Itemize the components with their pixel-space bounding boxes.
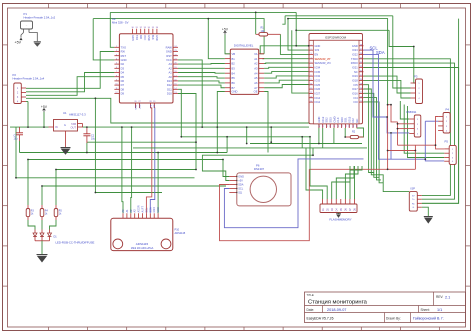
wire (esp b5 down) [333, 128, 335, 144]
svg-text:31: 31 [360, 75, 362, 77]
wire (bus to ADS1115 A0) [122, 127, 123, 213]
wire (v16) [15, 127, 17, 178]
wire (x288 to ESP.3V3) [288, 19, 309, 50]
svg-text:SDA: SDA [149, 207, 152, 212]
svg-text:17: 17 [325, 125, 327, 127]
svg-text:ADS1115: ADS1115 [175, 231, 186, 235]
wire U3.GND drop [217, 92, 225, 153]
wire CN1.1 stub [400, 101, 409, 119]
svg-text:ISP: ISP [411, 187, 416, 191]
svg-text:GND: GND [134, 105, 136, 110]
ground (D1) [41, 241, 43, 255]
wire (R4 to LED) [41, 220, 43, 230]
svg-text:GND: GND [121, 58, 127, 62]
svg-text:+5V: +5V [238, 179, 243, 183]
svg-text:D10: D10 [167, 92, 172, 96]
wire U2.D11 drop [178, 89, 181, 137]
LED D1 LED-RGB-CC-THRU/DIFFUSE [33, 233, 37, 237]
wire (v271 v) [270, 127, 272, 142]
wire ESP.TXD0-ISP.1 [364, 59, 451, 196]
svg-text:IO12: IO12 [315, 100, 321, 104]
svg-text:7: 7 [310, 70, 311, 72]
ground (U1) [65, 131, 67, 148]
wire gnd rail [20, 152, 228, 154]
svg-text:20: 20 [336, 125, 338, 127]
wire top rail y12 [110, 11, 296, 13]
wire rail y177 [16, 177, 195, 179]
wire (v56 to R5) [55, 170, 57, 206]
ground (FLASHMEMORY) [338, 213, 340, 214]
wire P2.4 to bottom rail [26, 98, 319, 128]
svg-text:TAB: TAB [71, 122, 76, 126]
svg-text:+5V: +5V [41, 105, 48, 109]
svg-text:Header-Female 2.54_1x4: Header-Female 2.54_1x4 [13, 77, 45, 81]
svg-text:D12: D12 [167, 83, 172, 87]
wire ESP.IO0 drop [364, 102, 384, 183]
svg-text:2: 2 [310, 49, 311, 51]
svg-text:IO34: IO34 [315, 66, 321, 70]
svg-text:18: 18 [329, 125, 331, 127]
svg-text:DIGITALLEVEL: DIGITALLEVEL [234, 44, 254, 48]
svg-text:30: 30 [360, 79, 362, 81]
svg-text:A0: A0 [169, 75, 173, 79]
wire ESP.IO5 drop [364, 85, 375, 173]
svg-text:A7: A7 [254, 86, 258, 90]
wire (P2.4 drop to bus) [94, 98, 96, 192]
svg-text:GND: GND [166, 50, 172, 54]
wire (v392 to P3.2) [393, 16, 411, 88]
svg-text:10: 10 [310, 83, 312, 85]
svg-text:SCL: SCL [145, 207, 148, 212]
svg-text:19: 19 [332, 125, 334, 127]
wire (v296 to ESP.GND) [296, 30, 309, 46]
svg-text:12: 12 [310, 92, 312, 94]
wire (v28 to R3) [27, 160, 29, 206]
svg-text:IO26: IO26 [315, 87, 321, 91]
svg-text:SDA: SDA [376, 50, 385, 55]
svg-text:RAW: RAW [166, 45, 173, 49]
svg-text:22: 22 [344, 125, 346, 127]
svg-text:NC: NC [354, 70, 358, 74]
svg-text:27: 27 [360, 92, 362, 94]
svg-text:CN5W11: CN5W11 [406, 110, 417, 114]
wire ESP.IO4 drop [364, 98, 382, 180]
svg-text:B4: B4 [232, 71, 236, 75]
wire (C2 to gnd rail) [86, 143, 88, 153]
wire (rail down x296) [295, 12, 297, 30]
wire red h169 [309, 168, 415, 170]
wire (LED common) [35, 240, 50, 242]
svg-text:D2: D2 [121, 62, 125, 66]
wire U2.GND riser [93, 19, 114, 60]
svg-text:NC: NC [355, 119, 359, 123]
svg-text:8: 8 [310, 75, 311, 77]
wire P4.1 (red) [436, 117, 439, 146]
svg-text:REV:: REV: [436, 295, 443, 299]
wire (riser to P5.3) [408, 106, 445, 158]
svg-text:P4: P4 [446, 108, 450, 112]
svg-text:AMS1117-3.3: AMS1117-3.3 [69, 113, 86, 117]
svg-text:D9: D9 [121, 92, 125, 96]
wire (rail-R1 left) [255, 12, 257, 34]
svg-text:10u: 10u [14, 138, 19, 141]
ground (ISP) [422, 207, 429, 216]
resistor R3 1k [26, 209, 30, 217]
svg-text:16: 16 [321, 125, 323, 127]
svg-text:34: 34 [360, 62, 362, 64]
wire (x458 to ISP.Rx) [422, 19, 459, 204]
wire U2.A2-U3.B3 [178, 67, 225, 69]
connector FLASHMEMORY (1x8) [320, 204, 357, 213]
wire U2.VCC drop [178, 60, 202, 127]
svg-text:CMD: CMD [332, 116, 336, 122]
svg-text:2.1: 2.1 [445, 296, 450, 300]
svg-text:RXI: RXI [139, 35, 142, 39]
wire red bus h145 [398, 144, 436, 146]
wire ESP.IO17 drop [364, 89, 410, 192]
wire P2.3-U2.D7 [26, 77, 114, 96]
svg-text:A2: A2 [169, 66, 173, 70]
svg-text:+5V: +5V [222, 27, 229, 31]
wire U3.VA-ESP.GND [260, 53, 264, 55]
svg-text:10u: 10u [91, 138, 96, 141]
svg-text:2018-09-07: 2018-09-07 [327, 308, 346, 312]
svg-text:23: 23 [348, 125, 350, 127]
wire (bus to ADS1115 A2) [130, 127, 133, 213]
svg-text:6: 6 [310, 66, 311, 68]
wire (v227 gnd) [226, 137, 228, 153]
svg-text:Header-Female 2.54_1x2: Header-Female 2.54_1x2 [24, 15, 56, 19]
wire (flash p1) [306, 148, 323, 199]
svg-text:IN: IN [55, 125, 58, 129]
svg-text:5: 5 [310, 62, 311, 64]
wire SDA (blue) [364, 54, 426, 159]
svg-text:EN: EN [315, 53, 319, 57]
wire CN1.2 (red) [398, 123, 410, 125]
svg-text:D8: D8 [121, 87, 125, 91]
svg-text:D7: D7 [121, 83, 125, 87]
svg-text:CLK: CLK [336, 117, 340, 122]
svg-text:D6: D6 [121, 79, 125, 83]
svg-text:38: 38 [360, 45, 362, 47]
svg-text:SD2: SD2 [325, 117, 329, 123]
wire rail y159 [28, 159, 223, 161]
svg-text:36: 36 [360, 53, 362, 55]
svg-text:IO19: IO19 [352, 74, 358, 78]
svg-text:13: 13 [310, 96, 312, 98]
svg-text:A1: A1 [254, 57, 258, 61]
svg-text:IO21: IO21 [352, 66, 358, 70]
svg-text:GRN: GRN [131, 35, 134, 41]
svg-text:G: G [64, 124, 66, 127]
wire U3.A7-ESP [264, 85, 309, 88]
wire (v285 stub) [282, 16, 285, 24]
svg-text:B3: B3 [232, 66, 236, 70]
svg-text:VDD: VDD [157, 207, 160, 212]
junction dots [27, 126, 29, 128]
svg-text:GND: GND [155, 35, 158, 41]
wire U3.OE drop [264, 92, 268, 153]
wire SDA-P5.4 (blue) [425, 121, 444, 161]
wire top rail y18 right [288, 19, 388, 105]
svg-text:IO23: IO23 [352, 48, 358, 52]
svg-text:IO5: IO5 [354, 83, 359, 87]
wire ESP.IO18-P3.4 [364, 80, 411, 98]
wire (v246 v) [246, 127, 248, 143]
wire U2.D10 drop [178, 94, 196, 170]
svg-text:TXO: TXO [135, 35, 138, 40]
wire top rail y15 right [285, 15, 393, 17]
svg-text:IO33: IO33 [315, 79, 321, 83]
svg-text:16bit I2C ADC+PGA: 16bit I2C ADC+PGA [131, 247, 154, 250]
svg-text:1/1: 1/1 [437, 308, 442, 312]
svg-text:+5V: +5V [15, 41, 22, 45]
svg-text:B6: B6 [232, 81, 236, 85]
svg-text:29: 29 [360, 83, 362, 85]
wire U3.A3-ESP [264, 67, 309, 68]
svg-text:U1: U1 [63, 111, 67, 115]
wire U2.A5-SDA (blue) [150, 108, 155, 213]
wire red h150 [388, 150, 416, 152]
svg-text:IO35: IO35 [315, 70, 321, 74]
svg-text:A4: A4 [254, 71, 258, 75]
wire U2.D12-U3.B7 [178, 85, 225, 88]
svg-text:IO14: IO14 [315, 96, 321, 100]
wire rail y169 [56, 169, 196, 171]
svg-text:ADDR: ADDR [138, 205, 141, 212]
wire ESP bottom rail y147 [133, 147, 367, 149]
svg-text:IO16: IO16 [352, 92, 358, 96]
svg-text:B2: B2 [232, 62, 236, 66]
svg-text:3: 3 [310, 53, 311, 55]
svg-text:DS1307: DS1307 [254, 167, 265, 171]
svg-text:Станция мониторинга: Станция мониторинга [308, 299, 368, 305]
wire P6.+5V loop [202, 155, 313, 180]
svg-text:28: 28 [360, 88, 362, 90]
svg-text:RST: RST [138, 105, 140, 110]
svg-text:B7: B7 [232, 86, 236, 90]
svg-text:Date:: Date: [307, 308, 315, 312]
svg-text:IO22: IO22 [352, 53, 358, 57]
svg-text:SENSOR_VP: SENSOR_VP [315, 57, 331, 61]
svg-text:D11: D11 [167, 87, 172, 91]
svg-text:A1: A1 [169, 71, 173, 75]
svg-text:35: 35 [360, 57, 362, 59]
wire (flash p7) [350, 166, 362, 199]
svg-text:GND: GND [352, 44, 358, 48]
svg-text:D13: D13 [167, 79, 172, 83]
wire (v42 to R4) [41, 186, 43, 205]
svg-text:3V3: 3V3 [315, 48, 320, 52]
svg-text:ALRT: ALRT [142, 206, 145, 213]
svg-text:GND: GND [232, 90, 238, 94]
svg-text:33: 33 [360, 66, 362, 68]
svg-text:B5: B5 [232, 76, 236, 80]
power flag +5V (U1 input) [43, 109, 46, 112]
svg-text:IO27: IO27 [315, 92, 321, 96]
svg-text:SD0: SD0 [340, 117, 344, 123]
svg-text:11: 11 [310, 88, 312, 90]
svg-text:RXD0: RXD0 [351, 61, 358, 65]
wire (flash p4) [336, 166, 354, 199]
svg-text:IO17: IO17 [352, 87, 358, 91]
svg-text:IO2: IO2 [351, 118, 355, 123]
wire CN1.3 (red) [398, 128, 410, 130]
wire U2.A1-U3.B4 [178, 72, 225, 75]
svg-text:GND: GND [153, 207, 156, 213]
wire SCL (blue) [364, 50, 410, 133]
svg-text:A3: A3 [169, 62, 173, 66]
capacitor C1 [19, 127, 21, 133]
resistor R4 1k [40, 209, 44, 217]
wire red v388 [387, 105, 389, 170]
svg-text:4: 4 [310, 57, 311, 59]
wire (R2 right up) [357, 128, 364, 137]
wire U3.A2-ESP [264, 62, 309, 65]
title block [305, 292, 466, 323]
svg-text:A6: A6 [254, 81, 258, 85]
wire (bus to ADS1115 VDD) [157, 153, 159, 214]
svg-text:A3: A3 [254, 66, 258, 70]
wire (R5 to LED) [50, 220, 57, 230]
svg-text:Sheet:: Sheet: [421, 308, 430, 312]
svg-text:P5: P5 [445, 140, 449, 144]
wire (C1 to gnd rail) [19, 141, 21, 153]
svg-text:VCC: VCC [166, 58, 172, 62]
svg-text:21: 21 [340, 125, 342, 127]
svg-text:A2: A2 [254, 62, 258, 66]
wire U2.A3-U3.B2 [178, 63, 225, 66]
svg-text:SENSOR_VN: SENSOR_VN [315, 61, 331, 65]
svg-text:SDA: SDA [238, 183, 244, 187]
svg-text:SCL: SCL [238, 187, 244, 191]
svg-text:VB: VB [232, 52, 236, 56]
module U4 ESP32WROOM [309, 34, 363, 124]
svg-text:Drawn By:: Drawn By: [386, 316, 401, 320]
wire P6.SCL (blue loop) [224, 159, 363, 228]
wire rail y192 [95, 192, 162, 194]
svg-text:IO25: IO25 [315, 83, 321, 87]
resistor R5 1k [54, 209, 58, 217]
wire (riser to P5.2) [404, 105, 444, 154]
wire (rail18 to U3.B1) [208, 19, 225, 59]
svg-text:SD1: SD1 [344, 117, 348, 123]
wire (flash p2) [310, 137, 327, 199]
mounting hole left (U5) [113, 239, 123, 249]
capacitor C2 [86, 127, 88, 134]
wire (R3 to LED) [28, 220, 35, 230]
svg-text:IO32: IO32 [315, 74, 321, 78]
wire U3.A1-ESP [263, 58, 265, 60]
svg-text:OUT: OUT [71, 126, 77, 130]
svg-text:A5: A5 [254, 76, 258, 80]
svg-text:D3: D3 [121, 66, 125, 70]
wire U3.A4-ESP [264, 72, 309, 74]
svg-text:Гайворонский В. Г.: Гайворонский В. Г. [413, 317, 444, 321]
wire (v389 to P3.1) [389, 30, 415, 83]
svg-text:VCC: VCC [143, 35, 146, 40]
svg-text:D4: D4 [121, 71, 125, 75]
svg-text:B1: B1 [232, 57, 236, 61]
wire P6.SDA (red loop) [220, 169, 310, 240]
svg-text:37: 37 [360, 49, 362, 51]
svg-text:14: 14 [310, 101, 312, 103]
wire ESP.IO16 drop [364, 93, 380, 177]
wire rail y142 [87, 141, 196, 143]
wire rail y136 [181, 136, 310, 138]
svg-text:IO4: IO4 [354, 96, 359, 100]
wire P2.1-U2.RXI [26, 52, 114, 89]
mounting hole right (U5) [161, 239, 171, 249]
svg-text:TITLE:: TITLE: [307, 293, 315, 297]
wire (esp b1 down) [318, 128, 320, 144]
wire (esp b2 down) [322, 128, 324, 148]
wire (h30 right) [296, 29, 389, 31]
svg-text:SD3: SD3 [328, 117, 332, 123]
svg-text:P10: P10 [175, 228, 180, 232]
wire 3V3 rail right [83, 126, 310, 128]
wire red v415 [414, 145, 416, 169]
wire U2.D13-U3.B6 [178, 81, 225, 83]
svg-text:GND: GND [147, 35, 150, 41]
svg-text:ADS1115: ADS1115 [136, 242, 149, 246]
svg-text:25: 25 [360, 101, 362, 103]
svg-text:15: 15 [317, 125, 319, 127]
svg-text:SQ: SQ [238, 191, 242, 195]
wire ESP.IO21-ISP.3 [364, 68, 459, 204]
wire (flash p6) [345, 166, 358, 199]
wire red bus v397 [397, 122, 399, 145]
wire (R1 right to EN) [280, 34, 308, 54]
power flag +5V (U3) [224, 31, 227, 34]
wire +5V rail [10, 126, 49, 128]
wire U3.A5-ESP [264, 76, 309, 78]
wire blue drop v391 [390, 133, 392, 159]
wire rail y186 [42, 185, 226, 187]
module U5 ADS1115 ADC [111, 218, 173, 250]
battery circle (P6) [250, 176, 276, 202]
svg-text:RXI: RXI [121, 50, 126, 54]
svg-text:TXD0: TXD0 [351, 57, 358, 61]
wire (red to P5.1) [436, 145, 445, 149]
svg-text:RST: RST [166, 54, 172, 58]
wire (esp b8 down) [344, 128, 346, 137]
svg-text:GND: GND [315, 44, 321, 48]
svg-text:IO15: IO15 [347, 116, 351, 122]
svg-text:GND: GND [238, 175, 244, 179]
wire (rail to P2 riser) [27, 102, 29, 128]
wire (flash p8) [354, 166, 356, 199]
svg-text:D5: D5 [121, 75, 125, 79]
svg-text:OE: OE [254, 90, 258, 94]
svg-text:26: 26 [360, 96, 362, 98]
svg-text:G: G [412, 207, 414, 209]
svg-text:IO18: IO18 [352, 79, 358, 83]
wire ESP bottom rail y143 [250, 143, 362, 145]
wire U2.TXO riser [110, 12, 114, 47]
wire U2.A4-SCL (red) [146, 108, 151, 213]
svg-text:Mini 328 - 5V: Mini 328 - 5V [112, 21, 129, 25]
wire ESP.RXD0-ISP.2 [364, 63, 455, 199]
svg-text:FLASHMEMORY: FLASHMEMORY [329, 217, 351, 221]
svg-text:TXO: TXO [121, 45, 127, 49]
wire U3.A6-ESP [264, 80, 309, 83]
svg-text:P3: P3 [414, 75, 418, 79]
svg-text:32: 32 [360, 70, 362, 72]
svg-text:IO13: IO13 [321, 116, 325, 122]
svg-text:24: 24 [351, 125, 353, 127]
wire top rail y18 left [93, 19, 264, 54]
